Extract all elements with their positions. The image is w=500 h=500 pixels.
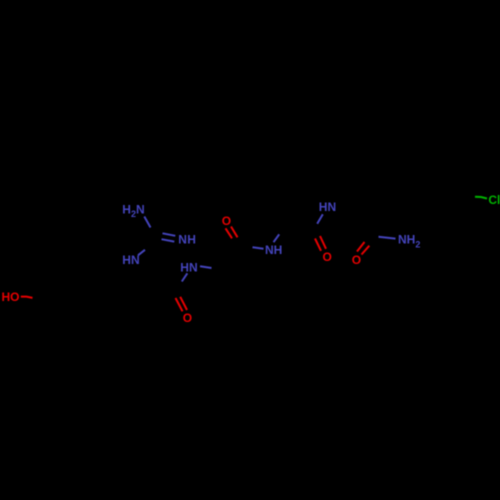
double bond C=O line 1 (top carbonyl) [226, 228, 233, 238]
bond stub N-C (second amide down-left) [317, 214, 323, 224]
svg-text:O: O [222, 214, 231, 228]
svg-text:HN: HN [180, 260, 197, 274]
bond stub N-C (guanidine NH to C) [138, 250, 145, 256]
double bond C=O line 2 (top carbonyl) [231, 227, 238, 238]
svg-text:O: O [323, 250, 332, 264]
svg-text:O: O [352, 253, 361, 267]
bond stub N-C alpha (right) [200, 266, 212, 268]
bond stub C-N (amide N left) [253, 247, 264, 249]
double bond C=O line 1 (terminal amide carbonyl) [357, 242, 365, 252]
double bond C=O line 2 (terminal amide carbonyl) [362, 246, 370, 255]
double bond C=O line 1 (mid-left carbonyl) [315, 239, 321, 251]
bond stub C-N (terminal amide) [379, 237, 396, 239]
double bond C=O line 2 (bottom carbonyl) [180, 297, 187, 310]
double bond C=O line 2 (mid-left carbonyl) [320, 236, 326, 249]
svg-text:HN: HN [319, 200, 336, 214]
bond stub N-C (amide N up-right) [274, 234, 280, 242]
double bond C=N upper line (guanidine imine) [163, 233, 176, 236]
svg-text:NH: NH [265, 243, 282, 257]
svg-text:HN: HN [122, 253, 139, 267]
bond stub N-C carbonyl (down-left) [182, 273, 188, 281]
double bond C=N lower line (guanidine imine) [162, 239, 175, 241]
svg-text:HO: HO [2, 290, 20, 304]
double bond C=O line 1 (bottom carbonyl) [176, 298, 183, 311]
svg-text:Cl: Cl [488, 193, 500, 207]
svg-text:NH: NH [178, 232, 196, 246]
bond stub O-C (phenol) [21, 297, 33, 298]
svg-text:O: O [183, 311, 192, 325]
bond stub N-C (guanidine amine to C) [144, 217, 150, 228]
bond stub C-Cl (chlorophenyl) [475, 197, 487, 199]
